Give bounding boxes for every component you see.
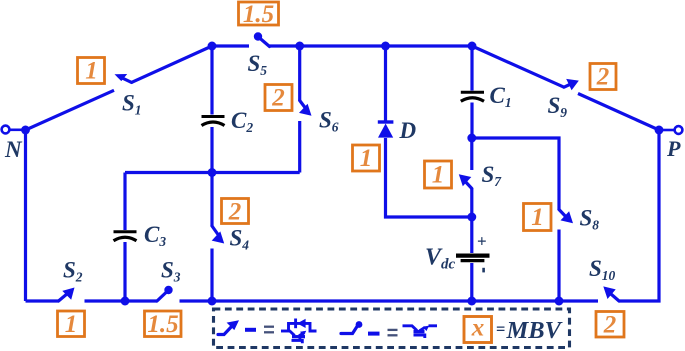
svg-text:1: 1 [65,311,78,338]
capacitor C2 plates [202,117,225,126]
junction dot N [21,126,30,135]
junction dot middle C2/S4 [208,168,217,177]
switch S8 arm [559,210,569,221]
svg-text:N: N [4,137,23,162]
terminal P circle [675,126,683,134]
wire bottom rail left segment [26,299,59,302]
capacitor C3 plates [114,232,137,241]
switch S4 arm [212,226,221,238]
legend equals 2 [388,330,398,335]
wire Vdc lower [470,263,473,301]
legend arrow switch arrowhead [227,320,239,330]
svg-text:1.5: 1.5 [147,311,178,338]
svg-text:2: 2 [271,85,285,112]
labels: nodes and components [4,51,681,284]
junction dot D/Vdc/S7 [467,213,476,222]
svg-text:D: D [399,118,417,143]
MBV box S10 [596,312,624,338]
arrowhead S7 [459,174,472,186]
wire D branch upper [384,46,387,121]
wire C1 branch upper [470,46,473,91]
MBV box S7 [425,161,452,188]
switch S9 arm [564,82,575,87]
svg-text:2: 2 [603,312,617,339]
wire P terminal stub [659,129,675,132]
capacitor C1 plates [461,92,484,101]
MBV box S8 [524,204,552,231]
legend dash 2 [368,332,380,336]
arrowhead S1 [115,74,128,81]
MBV box D [353,145,380,171]
switch S5 arm [259,38,270,47]
legend IGBT with diode symbol [281,319,317,344]
legend plain IGBT arrowhead [423,326,429,332]
diode D [378,122,394,138]
wire S1 lower diagonal [26,90,115,130]
svg-text:2: 2 [228,199,242,226]
junction dot bottom C3 [121,297,130,306]
switch S5 contact dot [254,32,262,40]
MBV box S1 [78,58,105,84]
switch S1 arm [119,76,132,82]
svg-text:MBV: MBV [506,317,563,344]
switch S3 arm [157,292,167,301]
junction dot P [655,126,664,135]
legend dashed box [214,309,570,348]
legend IGBT diode triangle [297,319,305,328]
wire middle horizontal [125,171,300,174]
legend IGBT arrowhead [300,331,306,337]
wire S7 upper [470,138,473,170]
MBV box S3 [145,311,182,337]
legend dash 1 [245,328,256,332]
terminal N circle [2,126,10,134]
wire Vdc upper [470,217,473,253]
arrowhead S4 [212,231,225,243]
junction dot top rail S1/C2 [208,42,217,51]
arrowhead S9 [566,79,579,90]
arrowhead S10 [603,286,615,299]
wire S4 upper [210,173,213,227]
wire S4 lower [210,249,213,302]
wire top rail S5 to C1 [270,44,473,47]
MBV box S2 [58,311,85,337]
svg-text:1: 1 [85,58,98,85]
svg-text:1.5: 1.5 [243,1,274,28]
battery minus tick [482,268,485,273]
wire S6 upper [298,46,301,101]
wire C1 branch lower [470,103,473,139]
switch S3 contact dot [164,286,172,294]
legend arrow switch symbol [218,325,234,335]
junction dot top rail C1/S9 [468,42,477,51]
svg-text:x: x [471,315,485,342]
wire C2 branch upper [210,46,213,115]
wire S7 lower [470,189,473,218]
MBV box x [464,317,492,343]
junction dot bottom Vdc [467,297,476,306]
svg-text:2: 2 [596,64,610,91]
arrowhead S6 [299,104,312,116]
junction dot top rail S6 [295,42,304,51]
wire top rail left of S5 [212,44,249,47]
battery Vdc [456,256,490,261]
junction dot top rail D [381,42,390,51]
svg-text:1: 1 [360,145,373,172]
legend plain IGBT symbol [403,326,438,338]
junction dot bottom S4 [208,297,217,306]
legend dot switch contact dot [356,321,363,328]
svg-text:P: P [666,136,681,161]
svg-text:1: 1 [432,162,445,189]
MBV box S6 [265,85,292,111]
wire S9 upper diagonal [472,46,564,87]
wire C2 branch lower [210,127,213,173]
wire S1 upper diagonal [132,46,213,82]
svg-text:=: = [496,320,505,339]
svg-text:1: 1 [531,204,544,231]
wire S9 lower diagonal [578,94,659,131]
wire N terminal stub [10,129,26,132]
svg-text:+: + [477,232,487,251]
switch S6 arm [300,101,308,112]
wire S8 top horizontal and vertical [472,138,559,210]
legend equals 1 [264,327,274,333]
wire bottom rail right of S10 [619,130,659,301]
wire D branch lower and horizontal to Vdc node [386,138,472,217]
MBV box S4 [222,199,249,224]
switch S10 arm [608,291,620,301]
junction dot bottom S8 [555,297,564,306]
switch S7 arm [463,179,472,189]
arrowhead S2 [62,288,74,300]
wire left vertical N to bottom rail [24,130,27,301]
wire bottom rail S2-S3 segment [85,299,158,302]
wire S8 lower [557,230,560,302]
arrowhead S8 [561,211,574,223]
MBV box S9 [590,64,616,90]
MBV orange boxes [58,2,625,337]
legend dot switch symbol [341,326,358,334]
wire bottom rail S3 to right segment [180,299,599,302]
junction dot S7/S8 split [467,134,476,143]
MBV box S5 [239,2,279,25]
wire C3 branch lower [123,242,126,301]
wire S6 lower [298,121,301,173]
switch S2 arm [59,291,71,301]
wire C3 branch upper [123,173,126,231]
